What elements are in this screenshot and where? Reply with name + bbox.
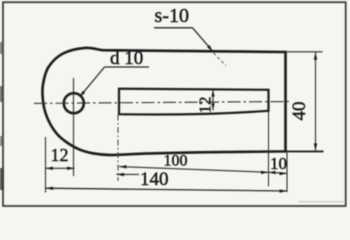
leader s-10 underline [154, 27, 193, 29]
extension 40 top [286, 51, 323, 53]
dim 40 arrow bottom [314, 143, 317, 151]
dim 10 arrow right [280, 172, 288, 175]
dim 140 left stub [117, 173, 140, 175]
extension 40 bottom [286, 150, 324, 152]
leader s-10 dashed continuation [214, 53, 227, 66]
dim 12 bottom arrow left [46, 167, 54, 170]
scan smudge left edge lower-middle [0, 136, 3, 146]
dim 12 bottom line [46, 167, 75, 169]
slot rectangle [119, 89, 269, 115]
dim 140 long arrow left [46, 187, 54, 190]
dim 100 arrow left [119, 165, 127, 168]
dim 140 long arrow right [280, 189, 288, 192]
scan smudge left edge bottom [0, 168, 4, 190]
plate outline [42, 48, 285, 155]
extension line left (x=45.5) [45, 137, 47, 193]
extension plate right down (x=287) [286, 153, 288, 193]
leader d10 arrow [79, 91, 85, 97]
slot dim 12 arrow bottom [211, 103, 214, 110]
horizontal centerline [34, 102, 289, 104]
leader d10 underline [105, 66, 150, 68]
dim 40 line [315, 52, 317, 151]
dim 100/10 row line [119, 167, 287, 174]
leader s-10 arrow [207, 45, 213, 52]
scan smudge left edge top [0, 42, 3, 54]
dim 100 arrow right [261, 171, 269, 174]
dim 12 bottom arrow right [67, 167, 75, 170]
extension slot right (x=268.5) [268, 111, 270, 187]
slot dim 12 arrow top [211, 89, 214, 96]
leader d10 line [80, 67, 105, 97]
scan smudge left edge middle [0, 86, 3, 102]
hole circle d10 [64, 93, 84, 113]
vertical centerline of hole / extension for 12 [73, 78, 75, 176]
ghost line above bottom frame [298, 201, 344, 203]
dim 140 stub arrow [117, 173, 125, 176]
leader s-10 line [193, 28, 213, 51]
slot dim 12 line [212, 89, 214, 110]
dim 140 long line [46, 188, 288, 191]
dim 40 arrow top [314, 52, 317, 60]
extension slot left dashed (x=119) [117, 115, 119, 182]
dim 10 arrow left [269, 171, 276, 174]
